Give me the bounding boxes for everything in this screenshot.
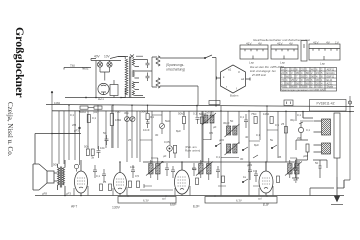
svg-text:0,1: 0,1	[240, 115, 244, 119]
svg-text:41V: 41V	[246, 42, 252, 46]
svg-text:40V: 40V	[94, 55, 101, 59]
svg-text:50k: 50k	[84, 145, 89, 149]
svg-text:umschaltung): umschaltung)	[166, 68, 185, 72]
svg-text:30pF: 30pF	[223, 121, 230, 125]
svg-text:Czeija, Nissl u. Co.: Czeija, Nissl u. Co.	[6, 102, 14, 157]
svg-text:EJF: EJF	[263, 203, 269, 207]
svg-text:5kΩ: 5kΩ	[165, 119, 171, 123]
svg-text:0,1: 0,1	[92, 116, 96, 120]
svg-text:Großglockner: Großglockner	[13, 27, 27, 98]
svg-text:Netz: Netz	[82, 67, 89, 71]
svg-text:(AL): (AL)	[93, 110, 98, 114]
svg-text:0,1: 0,1	[96, 174, 100, 178]
svg-text:8µF: 8µF	[254, 143, 259, 147]
svg-text:Spannungen gemessen mit 1000 Ω: Spannungen gemessen mit 1000 Ω/V	[281, 88, 324, 92]
svg-text:6,3V: 6,3V	[143, 199, 149, 203]
svg-text:col: col	[162, 197, 166, 201]
svg-text:30p: 30p	[290, 118, 295, 122]
svg-text:µF: µF	[163, 154, 167, 158]
svg-text:45: 45	[278, 155, 282, 159]
svg-text:AEF11: AEF11	[327, 68, 335, 72]
svg-text:EL11: EL11	[327, 78, 333, 82]
svg-text:2M: 2M	[297, 136, 302, 140]
svg-text:Boden: Boden	[230, 94, 239, 98]
svg-text:50p: 50p	[192, 167, 197, 171]
svg-text:AZ1: AZ1	[98, 97, 104, 101]
svg-text:30p: 30p	[124, 111, 129, 115]
svg-text:25: 25	[128, 138, 132, 142]
svg-text:130V: 130V	[112, 206, 121, 210]
svg-text:1MΩ: 1MΩ	[115, 118, 122, 122]
svg-text:0,5: 0,5	[135, 174, 139, 178]
svg-text:0,5: 0,5	[275, 123, 279, 127]
svg-text:EBF11: EBF11	[327, 75, 335, 79]
svg-text:0,1: 0,1	[70, 113, 74, 117]
svg-text:EJF: EJF	[193, 205, 200, 209]
svg-text:FV18011-4Z: FV18011-4Z	[317, 102, 335, 106]
svg-text:AF7: AF7	[71, 205, 77, 209]
svg-text:75Ω: 75Ω	[251, 112, 257, 116]
svg-text:50kΩ: 50kΩ	[141, 110, 149, 114]
svg-text:70Ω: 70Ω	[115, 110, 121, 114]
svg-text:50: 50	[315, 161, 319, 165]
svg-text:µF6: µF6	[219, 138, 224, 142]
svg-text:41V: 41V	[313, 41, 319, 45]
svg-text:µF3: µF3	[74, 129, 79, 133]
svg-text:0,1: 0,1	[193, 112, 197, 116]
svg-text:Lsp: Lsp	[320, 62, 325, 66]
svg-text:Zf 485 kHz: Zf 485 kHz	[251, 73, 267, 77]
svg-text:2x0,05: 2x0,05	[205, 111, 214, 115]
svg-text:50kΩ: 50kΩ	[178, 112, 186, 116]
svg-text:25: 25	[103, 180, 107, 184]
svg-text:50: 50	[103, 131, 107, 135]
svg-text:1MΩ: 1MΩ	[263, 112, 270, 116]
svg-text:a1: a1	[228, 68, 232, 72]
svg-text:10nF: 10nF	[143, 128, 150, 132]
svg-text:50kΩ: 50kΩ	[79, 110, 87, 114]
svg-text:41V: 41V	[277, 42, 283, 46]
svg-text:Lsp: Lsp	[280, 61, 285, 65]
svg-text:50: 50	[230, 119, 234, 123]
svg-text:µF8: µF8	[303, 154, 308, 158]
svg-text:0,1: 0,1	[297, 113, 301, 117]
svg-text:0,1: 0,1	[253, 169, 257, 173]
svg-text:ECH11: ECH11	[327, 71, 336, 75]
svg-text:1MΩ: 1MΩ	[54, 101, 61, 105]
svg-text:µF3: µF3	[66, 192, 71, 196]
svg-text:µF8: µF8	[42, 192, 47, 196]
svg-text:10k: 10k	[130, 165, 135, 169]
svg-text:10k: 10k	[100, 146, 105, 150]
svg-text:0,1: 0,1	[256, 133, 260, 137]
svg-text:(Spannungs-: (Spannungs-	[166, 63, 184, 67]
svg-text:Rohr unten): Rohr unten)	[185, 149, 200, 153]
svg-text:µF: µF	[213, 125, 217, 129]
svg-text:a2: a2	[241, 77, 245, 81]
svg-text:0,05: 0,05	[164, 140, 170, 144]
svg-text:TfV: TfV	[70, 64, 76, 68]
svg-text:25: 25	[281, 122, 285, 126]
svg-text:30: 30	[155, 133, 159, 137]
svg-text:col: col	[258, 197, 262, 201]
svg-text:0,1: 0,1	[150, 115, 154, 119]
svg-text:Skala: Skala	[327, 85, 334, 89]
svg-text:Lsp: Lsp	[249, 61, 254, 65]
svg-text:0,1: 0,1	[306, 128, 310, 132]
svg-text:500: 500	[53, 163, 58, 167]
svg-text:2M: 2M	[72, 123, 77, 127]
svg-text:8µF: 8µF	[176, 129, 181, 133]
svg-text:10V: 10V	[104, 55, 111, 59]
svg-text:40: 40	[245, 135, 249, 139]
svg-text:0,1: 0,1	[216, 155, 220, 159]
svg-text:0,5: 0,5	[209, 131, 213, 135]
svg-text:30: 30	[240, 157, 244, 161]
svg-text:6,3V: 6,3V	[236, 199, 242, 203]
